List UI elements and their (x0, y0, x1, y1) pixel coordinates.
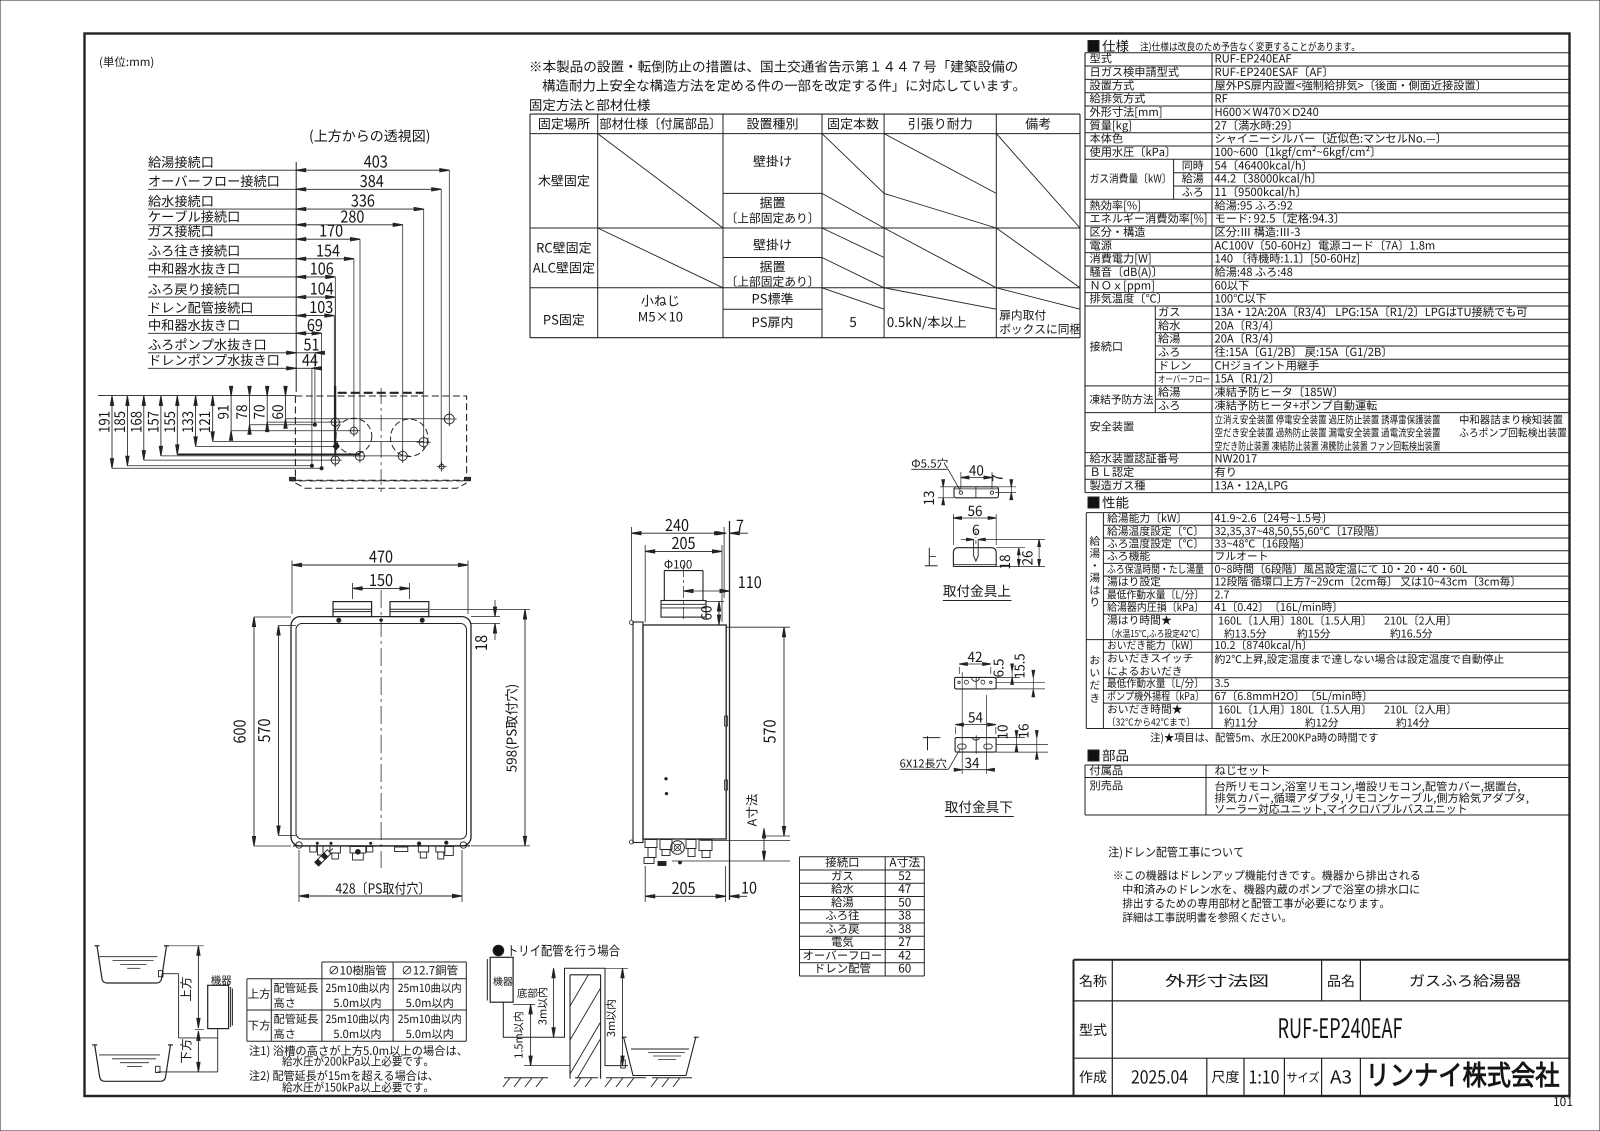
svg-text:品名: 品名 (1327, 971, 1355, 991)
parts header (1088, 750, 1099, 761)
svg-text:10: 10 (992, 725, 1012, 740)
svg-text:型式: 型式 (1079, 1020, 1107, 1040)
svg-text:42: 42 (968, 647, 983, 667)
exhaust stub left (333, 602, 372, 617)
small corner tabs (290, 477, 296, 480)
svg-text:5.0m以内: 5.0m以内 (406, 995, 454, 1011)
front view unit outer (291, 617, 471, 846)
svg-text:240: 240 (665, 512, 689, 536)
svg-text:給水圧が150kPa以上必要です。: 給水圧が150kPa以上必要です。 (282, 1079, 434, 1096)
svg-text:110: 110 (738, 569, 762, 593)
svg-text:5.0m以内: 5.0m以内 (333, 995, 381, 1011)
dim kahou (197, 1031, 199, 1072)
svg-text:下方: 下方 (176, 1038, 195, 1063)
dim 34 (961, 672, 963, 774)
side exhaust pipe (663, 571, 665, 601)
vertical dim 168 (143, 396, 145, 460)
svg-text:25m10曲以内: 25m10曲以内 (326, 980, 390, 996)
dim 6 (967, 538, 974, 541)
svg-text:オーバーフロー接続口: オーバーフロー接続口 (148, 171, 280, 190)
svg-text:ふろポンプ回転検出装置: ふろポンプ回転検出装置 (1459, 425, 1567, 441)
side view body (643, 625, 726, 839)
dim 26 bracket (991, 539, 1045, 541)
top dots (337, 618, 341, 622)
svg-text:固定本数: 固定本数 (827, 114, 879, 133)
svg-text:PS標準: PS標準 (752, 289, 794, 308)
svg-text:428〔PS取付穴〕: 428〔PS取付穴〕 (336, 878, 431, 898)
ps mount tabs bottom (296, 842, 302, 848)
svg-text:作成: 作成 (1079, 1067, 1107, 1087)
svg-text:約16.5分: 約16.5分 (1390, 625, 1433, 641)
vertical dim 191 (111, 396, 113, 468)
pipe circles dashed (336, 418, 372, 454)
bracket upper plate (954, 487, 999, 498)
svg-text:∅12.7銅管: ∅12.7銅管 (401, 963, 458, 979)
svg-text:7: 7 (736, 513, 744, 537)
svg-text:高さ: 高さ (274, 1026, 296, 1042)
dim 54 (954, 727, 956, 734)
lower bathtub (95, 1045, 171, 1081)
svg-text:外形寸法図: 外形寸法図 (1165, 970, 1269, 991)
dim 428 bottom (298, 850, 300, 902)
svg-text:木壁固定: 木壁固定 (538, 171, 590, 190)
side view back plate (633, 622, 643, 843)
dim 150 (352, 583, 354, 599)
svg-text:RUF-EP240EAF: RUF-EP240EAF (1278, 1007, 1403, 1046)
svg-text:1.5m以内: 1.5m以内 (511, 1011, 527, 1058)
svg-text:∅10樹脂管: ∅10樹脂管 (328, 963, 387, 979)
svg-text:16: 16 (1012, 724, 1032, 739)
dims 205/10 bottom side (644, 866, 646, 902)
torii dims (513, 1003, 535, 1005)
svg-text:10: 10 (741, 875, 757, 899)
svg-text:上方: 上方 (248, 986, 271, 1002)
svg-text:き: き (1089, 690, 1100, 706)
svg-text:6: 6 (972, 520, 980, 540)
small dots (310, 464, 313, 467)
dim 205 top (644, 545, 646, 622)
torii pipe path (503, 968, 628, 1065)
vertical dim 155 (176, 396, 178, 455)
svg-text:15.5: 15.5 (1009, 654, 1029, 679)
svg-text:設置種別: 設置種別 (746, 114, 798, 133)
front view unit inner panel (296, 624, 467, 840)
A dim side (763, 828, 765, 860)
datum mark upper (928, 548, 930, 566)
svg-text:13: 13 (919, 491, 939, 506)
svg-text:205: 205 (672, 875, 696, 899)
dim 40 upper (960, 472, 962, 489)
svg-text:54: 54 (968, 708, 983, 728)
svg-text:(単位:mm): (単位:mm) (99, 54, 154, 70)
svg-text:ガス接続口: ガス接続口 (148, 221, 214, 240)
svg-text:ふろ戻り接続口: ふろ戻り接続口 (148, 279, 240, 298)
upper bathtub (97, 946, 167, 983)
svg-text:ALC壁固定: ALC壁固定 (533, 258, 595, 277)
upper tub water lines (99, 956, 157, 958)
vertical dim 78 (249, 396, 251, 425)
torii bathtub (624, 1037, 696, 1075)
datum mark lower (927, 736, 929, 750)
piping limits table (322, 961, 466, 963)
svg-text:101: 101 (1553, 1093, 1573, 1110)
svg-text:構造耐力上安全な構造方法を定める件の一部を改定する件」に対応: 構造耐力上安全な構造方法を定める件の一部を改定する件」に対応しています。 (542, 75, 1026, 95)
svg-text:取付金具下: 取付金具下 (945, 796, 1013, 816)
svg-text:ねじセット: ねじセット (1215, 762, 1271, 778)
dim 56 (952, 514, 954, 545)
svg-text:150: 150 (369, 567, 393, 591)
title block (1074, 959, 1571, 961)
dim 18 right (471, 616, 500, 618)
svg-text:6.5: 6.5 (987, 659, 1007, 678)
front center line (380, 590, 382, 868)
svg-text:中和器水抜き口: 中和器水抜き口 (148, 259, 240, 278)
dim 7 top (wall gap) (717, 532, 727, 535)
fixing table grid (530, 113, 1080, 115)
svg-text:ソーラー対応ユニット,マイクロバブルバスユニット: ソーラー対応ユニット,マイクロバブルバスユニット (1215, 801, 1468, 817)
svg-text:25m10曲以内: 25m10曲以内 (398, 1011, 462, 1027)
upper tub outlet (159, 971, 164, 977)
ground hatching (504, 1077, 548, 1079)
exhaust stub right (390, 602, 429, 617)
svg-text:約11分: 約11分 (1224, 714, 1258, 730)
svg-text:給湯接続口: 給湯接続口 (148, 152, 214, 171)
svg-text:※本製品の設置・転倒防止の措置は、国土交通省告示第１４４７号: ※本製品の設置・転倒防止の措置は、国土交通省告示第１４４７号「建築設備の (529, 56, 1018, 76)
svg-text:り: り (1089, 594, 1100, 610)
spec table grid (1085, 52, 1570, 54)
svg-text:ふろ往き接続口: ふろ往き接続口 (148, 241, 240, 260)
svg-text:〔上部固定あり〕: 〔上部固定あり〕 (726, 209, 820, 227)
svg-text:約2℃上昇,設定温度まで達しない場合は設定温度で自動停止: 約2℃上昇,設定温度まで達しない場合は設定温度で自動停止 (1215, 651, 1505, 667)
center line (380, 388, 382, 492)
svg-text:引張り耐力: 引張り耐力 (908, 114, 973, 133)
svg-text:18: 18 (995, 554, 1015, 569)
svg-text:18: 18 (468, 635, 492, 651)
svg-text:固定場所: 固定場所 (538, 114, 590, 133)
svg-text:5.0m以内: 5.0m以内 (333, 1026, 381, 1042)
svg-text:ガスふろ給湯器: ガスふろ給湯器 (1409, 970, 1522, 991)
svg-text:安全装置: 安全装置 (1090, 419, 1135, 435)
svg-text:取付金具上: 取付金具上 (943, 580, 1011, 600)
svg-text:中和器水抜き口: 中和器水抜き口 (148, 315, 240, 334)
svg-text:詳細は工事説明書を参照ください。: 詳細は工事説明書を参照ください。 (1122, 910, 1292, 926)
performance table grid (1086, 512, 1570, 514)
vertical dim 121 (212, 396, 214, 442)
svg-text:A3: A3 (1330, 1064, 1352, 1090)
svg-text:リンナイ株式会社: リンナイ株式会社 (1366, 1053, 1560, 1093)
dim 7 upper (999, 486, 1017, 488)
dim 240 top (631, 527, 633, 620)
exhaust stubs dashed bold (338, 392, 423, 394)
fixing table diagonals (598, 134, 723, 228)
pipe to lower tub (217, 1029, 219, 1072)
svg-text:PS固定: PS固定 (543, 310, 585, 329)
lower tub water lines (99, 1054, 160, 1056)
torii title (493, 945, 504, 956)
svg-text:60: 60 (697, 605, 717, 620)
svg-text:Φ100: Φ100 (664, 557, 692, 573)
svg-text:高さ: 高さ (274, 995, 296, 1011)
vertical dim 185 (126, 396, 128, 466)
dim 16 (996, 751, 1048, 753)
svg-text:〔32℃から42℃まで〕: 〔32℃から42℃まで〕 (1107, 715, 1195, 729)
svg-text:5.0m以内: 5.0m以内 (406, 1026, 454, 1042)
svg-text:名称: 名称 (1079, 971, 1107, 991)
dim 598 PS right (430, 609, 530, 611)
svg-text:RC壁固定: RC壁固定 (536, 238, 592, 257)
vertical dim 133 (195, 396, 197, 447)
svg-text:ボックスに同梱: ボックスに同梱 (999, 321, 1081, 338)
vertical dim 70 (266, 396, 268, 422)
wall line (729, 521, 731, 900)
svg-text:40: 40 (969, 461, 984, 481)
left vertical dims reference line (98, 395, 295, 397)
dim 42 (958, 667, 960, 674)
svg-text:25m10曲以内: 25m10曲以内 (326, 1011, 390, 1027)
svg-text:壁掛け: 壁掛け (753, 235, 792, 254)
svg-text:尺度: 尺度 (1211, 1067, 1239, 1087)
dim 60 pipe height (718, 602, 720, 625)
svg-text:性能: 性能 (1102, 492, 1130, 512)
top view unit outline dashed (295, 396, 466, 480)
dim 110 (684, 590, 730, 592)
svg-text:〔上部固定あり〕: 〔上部固定あり〕 (726, 272, 820, 290)
lower tub outlet (156, 1066, 161, 1072)
svg-text:5: 5 (849, 311, 857, 331)
svg-text:60: 60 (267, 405, 288, 420)
svg-text:1:10: 1:10 (1249, 1064, 1280, 1090)
dim 570 side right (726, 626, 790, 628)
vertical dim 157 (160, 396, 162, 456)
svg-text:上方: 上方 (176, 976, 195, 1001)
connection points (331, 418, 339, 426)
svg-text:25m10曲以内: 25m10曲以内 (398, 980, 462, 996)
dim 6.5 (996, 676, 1020, 678)
vertical dim 60 (285, 396, 287, 419)
svg-text:注)ドレン配管工事について: 注)ドレン配管工事について (1108, 843, 1244, 861)
connector lines (112, 467, 322, 469)
svg-text:7: 7 (987, 474, 1007, 482)
A-dim table (800, 856, 925, 858)
front cover dashed curve (291, 478, 466, 481)
svg-text:配管延長: 配管延長 (274, 1011, 319, 1027)
dim 570 left (279, 625, 297, 627)
bracket upper hook piece (953, 548, 996, 567)
bracket lower plate2 (955, 738, 996, 753)
drain diamond (333, 443, 339, 450)
svg-text:26: 26 (1018, 550, 1038, 565)
svg-text:機器: 機器 (493, 973, 513, 988)
svg-text:570: 570 (757, 719, 781, 743)
dim 15.5 (996, 688, 1045, 690)
svg-text:598(PS取付穴): 598(PS取付穴) (501, 684, 521, 773)
svg-text:配管延長: 配管延長 (274, 980, 319, 996)
svg-text:固定方法と部材仕様: 固定方法と部材仕様 (529, 94, 651, 114)
svg-text:注)★項目は、配管5m、水圧200KPa時の時間です: 注)★項目は、配管5m、水圧200KPa時の時間です (1150, 730, 1378, 746)
dim 600 left (254, 616, 291, 618)
dim jouhou (167, 945, 204, 947)
svg-text:PS扉内: PS扉内 (752, 312, 794, 331)
svg-text:約14分: 約14分 (1396, 714, 1430, 730)
dim 470 (291, 561, 293, 615)
svg-text:280: 280 (340, 203, 364, 227)
svg-text:約12分: 約12分 (1305, 714, 1339, 730)
svg-text:接続口: 接続口 (1090, 338, 1124, 354)
svg-text:56: 56 (968, 501, 983, 521)
svg-text:470: 470 (369, 544, 393, 568)
svg-text:備考: 備考 (1025, 114, 1051, 133)
svg-text:ドレン配管接続口: ドレン配管接続口 (148, 297, 254, 316)
svg-text:34: 34 (965, 753, 980, 773)
thick line 106/104 overlap (334, 386, 336, 455)
svg-text:壁掛け: 壁掛け (753, 151, 792, 170)
torii wall hatched (569, 975, 571, 1079)
kiki box torii (490, 957, 513, 1002)
svg-text:60: 60 (898, 960, 911, 977)
svg-text:付属品: 付属品 (1090, 762, 1124, 778)
dim 18 bracket (996, 547, 1025, 549)
svg-text:3m以内: 3m以内 (603, 999, 619, 1037)
svg-text:凍結予防方法: 凍結予防方法 (1090, 392, 1154, 408)
svg-text:(上方からの透視図): (上方からの透視図) (309, 126, 430, 146)
svg-text:0.5kN/本以上: 0.5kN/本以上 (887, 312, 967, 331)
svg-text:2025.04: 2025.04 (1131, 1064, 1188, 1090)
svg-text:600: 600 (227, 719, 251, 743)
svg-text:別売品: 別売品 (1090, 778, 1124, 794)
bracket lower plate1 (955, 677, 997, 689)
svg-text:M5×10: M5×10 (638, 307, 683, 326)
svg-text:サイズ: サイズ (1287, 1067, 1320, 1086)
svg-text:A寸法: A寸法 (742, 793, 761, 826)
svg-text:ドレンポンプ水抜き口: ドレンポンプ水抜き口 (148, 350, 280, 369)
svg-text:ガス消費量〔kW〕: ガス消費量〔kW〕 (1090, 171, 1172, 187)
svg-text:下方: 下方 (248, 1018, 271, 1034)
pipe from upper tub (163, 973, 179, 975)
vertical dim 91 (230, 396, 232, 431)
svg-text:トリイ配管を行う場合: トリイ配管を行う場合 (507, 941, 620, 960)
dim 10 (996, 737, 1025, 739)
dim 13 upper (940, 486, 954, 488)
hook V (973, 540, 975, 557)
bottom fittings front (310, 846, 317, 852)
performance header (1088, 497, 1099, 508)
spec header (1088, 41, 1099, 52)
svg-text:44: 44 (302, 347, 318, 371)
svg-text:570: 570 (251, 718, 275, 742)
svg-text:部材仕様〔付属部品〕: 部材仕様〔付属部品〕 (599, 114, 721, 133)
datum line (295, 162, 297, 392)
svg-text:ドレン配管: ドレン配管 (814, 961, 871, 977)
svg-text:3m以内: 3m以内 (535, 987, 551, 1025)
side bottom fittings (645, 840, 657, 848)
